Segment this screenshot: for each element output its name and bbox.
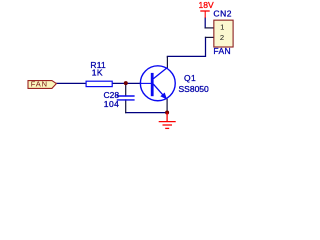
svg-text:1: 1 bbox=[220, 23, 224, 32]
svg-text:2: 2 bbox=[220, 33, 224, 42]
svg-text:SS8050: SS8050 bbox=[179, 84, 210, 94]
svg-text:FAN: FAN bbox=[31, 79, 48, 88]
svg-text:1K: 1K bbox=[92, 68, 103, 78]
svg-text:Q1: Q1 bbox=[184, 73, 196, 83]
svg-text:CN2: CN2 bbox=[213, 8, 232, 18]
svg-text:18V: 18V bbox=[199, 0, 214, 10]
svg-text:104: 104 bbox=[104, 99, 120, 109]
svg-text:FAN: FAN bbox=[213, 46, 231, 56]
